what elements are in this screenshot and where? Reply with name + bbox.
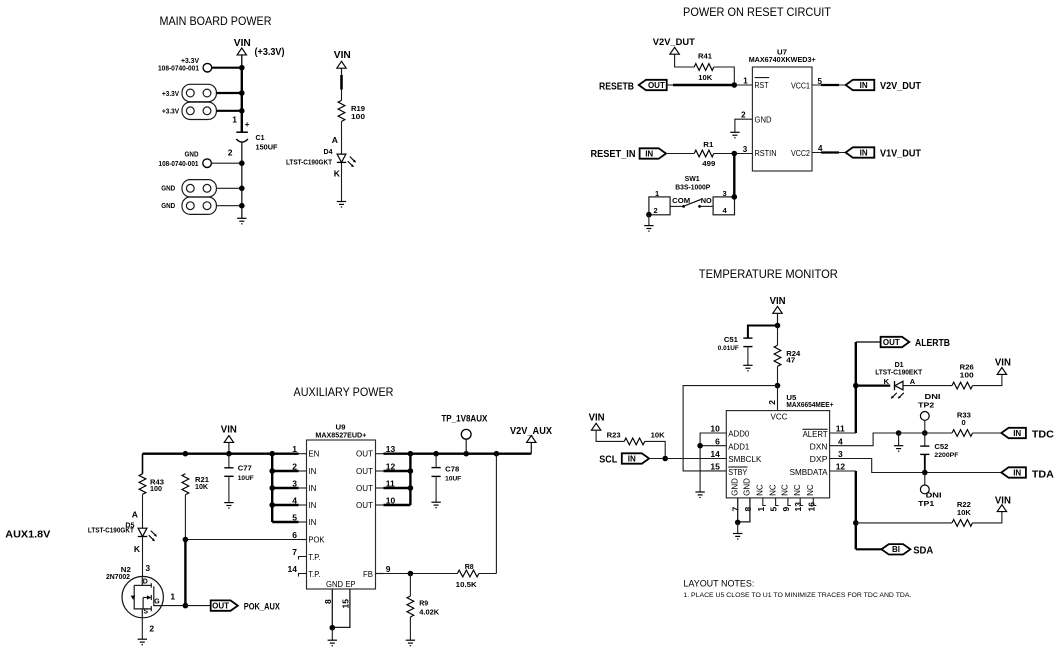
svg-text:47: 47 [786,356,795,365]
svg-text:OUT: OUT [356,467,373,476]
svg-text:5: 5 [292,512,297,522]
flag IN TDC [1001,428,1026,438]
svg-text:100: 100 [351,112,365,121]
svg-text:DXP: DXP [810,455,828,464]
svg-text:V2V_DUT: V2V_DUT [880,81,921,92]
svg-text:10K: 10K [195,484,208,491]
svg-text:10K: 10K [698,73,713,82]
wire RESETB to U7 pin 1 [667,84,673,86]
wire SMBDATA net [830,470,856,472]
wire POK to U9 pin 6 [185,539,298,541]
svg-text:9: 9 [386,564,391,574]
svg-text:3: 3 [743,145,748,154]
svg-text:C1: C1 [256,133,265,142]
wire D4 to ground [341,163,343,202]
svg-text:C51: C51 [724,335,738,344]
svg-text:R9: R9 [419,598,428,607]
wire VCC loop to STBY [683,386,777,471]
svg-text:G: G [154,599,160,606]
ground main board [237,218,246,224]
wire R23 to SCL node [645,441,666,458]
svg-text:D1: D1 [895,362,904,369]
node POK junction [183,537,189,543]
svg-text:1: 1 [292,444,297,454]
svg-text:TDA: TDA [1032,469,1054,480]
svg-text:TP_1V8AUX: TP_1V8AUX [441,413,488,424]
svg-text:GND: GND [743,478,752,496]
svg-text:OUT: OUT [883,338,900,347]
svg-text:2: 2 [767,400,777,405]
svg-text:AUXILIARY POWER: AUXILIARY POWER [294,385,394,399]
wire RESET_IN to R1 [666,153,694,155]
svg-text:8: 8 [743,507,753,512]
ground U5 [733,534,742,540]
svg-text:MAIN BOARD POWER: MAIN BOARD POWER [160,14,272,28]
svg-text:ALERTB: ALERTB [915,338,950,349]
svg-text:12: 12 [836,462,846,472]
svg-text:SMBCLK: SMBCLK [728,455,762,464]
svg-text:4: 4 [838,436,843,446]
wire TDA row [925,472,1002,474]
svg-text:0: 0 [962,418,966,427]
svg-text:NC: NC [768,484,777,496]
wire aux top rail [143,453,299,455]
svg-text:IN: IN [628,454,636,463]
svg-text:IN: IN [1013,468,1021,477]
svg-text:LTST-C190GKT: LTST-C190GKT [88,528,135,535]
flag IN V1V_DUT [846,147,875,157]
svg-text:13: 13 [793,502,803,512]
svg-text:IN: IN [645,149,653,158]
wire R21 to POK node [184,495,186,540]
svg-text:GND: GND [161,203,175,210]
svg-text:ADD1: ADD1 [728,442,750,451]
svg-text:EN: EN [308,450,319,459]
node SW1 pin 2 ground [646,212,652,218]
svg-text:3: 3 [145,563,150,573]
svg-text:SMBDATA: SMBDATA [790,468,829,477]
svg-text:D4: D4 [324,149,333,156]
svg-text:NC: NC [756,484,765,496]
svg-text:15: 15 [340,599,350,609]
wire R43 to D5 [142,494,144,528]
wire gnd connector1 to bus [216,187,241,189]
svg-text:DXN: DXN [810,443,828,452]
svg-text:2: 2 [741,111,746,120]
wire R8 to output [479,573,497,575]
wire R41 to node 1 [714,67,735,85]
wire POK node down to gate [184,540,186,606]
svg-text:2N7002: 2N7002 [106,574,130,581]
svg-text:TP2: TP2 [918,401,934,410]
svg-text:+3.3V: +3.3V [162,91,179,98]
svg-text:10UF: 10UF [445,475,461,482]
svg-text:100: 100 [150,486,162,493]
svg-text:NC: NC [781,484,790,496]
ground N2 [138,639,147,645]
ground SW1 [644,226,653,232]
svg-text:S: S [143,609,148,616]
svg-text:GND: GND [755,116,772,125]
svg-text:2: 2 [149,623,154,633]
node R22 branch [853,520,859,526]
testpoint TP1 DNI [924,473,926,486]
wire node3 down to switch [733,154,735,197]
svg-text:ALERT: ALERT [803,430,828,439]
node VIN C51 R24 [775,323,781,329]
svg-text:R1: R1 [703,140,713,149]
svg-text:SCL: SCL [599,455,617,466]
svg-text:EP: EP [346,580,356,589]
svg-text:2: 2 [654,206,658,215]
wire U5 GND pins [737,498,739,523]
svg-text:RSTIN: RSTIN [755,149,777,158]
svg-text:A: A [332,135,338,145]
svg-text:OUT: OUT [356,484,373,493]
ground U7 pin2 [730,132,739,138]
svg-text:3: 3 [838,449,843,459]
svg-text:R21: R21 [195,477,209,484]
svg-text:RESET_IN: RESET_IN [591,149,636,160]
node D1 branch [853,383,859,389]
svg-text:1: 1 [756,507,766,512]
flag OUT RESETB [639,80,667,90]
capacitor C78 10UF [435,454,437,468]
svg-text:VIN: VIN [995,357,1011,368]
svg-text:DNI: DNI [925,392,941,401]
svg-text:RST: RST [755,81,769,90]
svg-text:COM: COM [672,196,690,205]
svg-text:IN: IN [308,501,316,510]
svg-text:LTST-C190GKT: LTST-C190GKT [286,160,333,167]
svg-text:14: 14 [288,564,298,574]
svg-text:10K: 10K [651,431,666,440]
wire U9 input bus [271,454,273,522]
wire connector2 to bus [216,110,241,112]
svg-text:1: 1 [170,592,175,602]
svg-text:11: 11 [836,424,845,434]
svg-text:LTST-C190EKT: LTST-C190EKT [875,369,923,376]
ground C51 [743,365,752,371]
svg-text:6: 6 [715,436,720,446]
svg-text:A: A [910,377,916,386]
ground C78 [431,502,440,508]
svg-text:SDA: SDA [913,546,933,557]
svg-text:OUT: OUT [212,602,229,611]
svg-text:TEMPERATURE MONITOR: TEMPERATURE MONITOR [699,267,838,281]
svg-text:2: 2 [228,148,233,158]
svg-text:OUT: OUT [356,450,373,459]
svg-text:C78: C78 [445,465,459,474]
ground TDC [894,446,903,452]
wire FB net [376,573,384,575]
svg-text:(+3.3V): (+3.3V) [255,46,285,58]
svg-text:16: 16 [806,502,816,512]
svg-text:VIN: VIN [589,413,605,424]
svg-text:1: 1 [232,115,237,125]
ground ADD pins [695,492,704,498]
wire aux output rail [410,453,531,455]
wire GND vertical bus [241,143,243,219]
svg-text:RESETB: RESETB [599,82,634,93]
svg-text:N2: N2 [121,567,131,574]
U9 unconnected pins 7 14 [299,557,307,577]
svg-text:4.02K: 4.02K [419,608,440,617]
svg-text:GND: GND [161,186,175,193]
switch lever and contacts [670,205,684,207]
svg-text:MAX6654MEE+: MAX6654MEE+ [786,400,834,409]
ground D4 [337,202,346,208]
svg-text:100: 100 [960,371,974,380]
svg-text:VCC: VCC [771,412,788,421]
svg-text:C52: C52 [934,442,948,451]
svg-text:10UF: 10UF [238,475,254,482]
svg-text:T.P.: T.P. [308,570,320,579]
capacitor C52 2200PF [924,433,926,446]
svg-text:NC: NC [806,484,815,496]
svg-text:499: 499 [702,159,715,168]
svg-text:10K: 10K [957,508,972,517]
U9 pin stubs left [299,454,307,540]
svg-text:0.01UF: 0.01UF [718,345,739,352]
svg-text:1: 1 [743,76,748,85]
resistor R19 100 [338,100,345,121]
svg-text:+: + [245,120,250,129]
wire R22 row [856,522,952,524]
resistor R24 47 [777,326,779,346]
svg-text:GND: GND [185,152,199,159]
U5 NC pin stubs [763,498,817,506]
ground R9 [406,640,415,646]
svg-text:15: 15 [710,462,720,472]
svg-text:GND: GND [326,580,343,589]
svg-text:VIN: VIN [234,38,251,49]
wire terminal to bus [212,67,242,69]
wire +3.3V vertical bus [241,68,243,132]
svg-text:DNI: DNI [926,490,942,499]
svg-text:NC: NC [793,484,802,496]
svg-text:IN: IN [860,81,868,90]
svg-text:2: 2 [292,461,297,471]
resistor R43 100 [139,474,146,495]
flag IN TDA [1001,467,1026,477]
wire gnd connector2 to bus [216,205,241,207]
svg-text:T.P.: T.P. [308,553,320,562]
wire gnd terminal to bus [211,162,241,164]
svg-text:IN: IN [1013,429,1021,438]
svg-text:C77: C77 [238,464,252,473]
wire VCC stub [777,386,779,411]
node R24 VCC loop [775,383,781,389]
svg-text:D: D [143,578,148,585]
wire DXP to TDA row [830,459,925,473]
wire R1 to U7 pin 3 [714,153,735,155]
svg-text:TP1: TP1 [918,499,934,508]
svg-text:TDC: TDC [1032,430,1054,441]
svg-text:AUX1.8V: AUX1.8V [5,530,50,541]
svg-text:GND: GND [730,478,739,496]
svg-text:A: A [132,510,138,520]
resistor R21 10K [182,474,189,495]
flag OUT ALERTB [881,337,910,347]
svg-text:10.5K: 10.5K [456,580,478,589]
ground U9 [328,640,337,646]
svg-text:OUT: OUT [356,501,373,510]
svg-text:POK: POK [308,536,325,545]
svg-text:POK_AUX: POK_AUX [244,602,281,613]
svg-text:8: 8 [323,599,333,604]
svg-text:4: 4 [292,495,297,505]
svg-text:VIN: VIN [221,425,237,436]
flag BI SDA [882,544,911,554]
svg-text:+3.3V: +3.3V [162,109,179,116]
wire D1 to R26 [903,385,952,387]
svg-text:+3.3V: +3.3V [181,58,199,65]
svg-text:V2V_DUT: V2V_DUT [653,37,695,48]
svg-text:1. PLACE U5 CLOSE TO U1 TO MIN: 1. PLACE U5 CLOSE TO U1 TO MINIMIZE TRAC… [683,592,911,599]
svg-text:B3S-1000P: B3S-1000P [675,182,710,191]
svg-text:VCC2: VCC2 [791,149,810,158]
wire thick segment below VIN [340,75,343,90]
svg-text:108-0740-001: 108-0740-001 [158,66,199,73]
wire ALERT net [830,432,856,434]
svg-text:9: 9 [781,507,791,512]
svg-text:VIN: VIN [334,50,351,61]
wire D5 to N2 drain [142,537,144,577]
svg-text:108-0740-001: 108-0740-001 [159,161,199,168]
svg-text:STBY: STBY [728,468,748,477]
svg-text:IN: IN [860,148,868,157]
resistor R9 4.02K [409,574,411,597]
svg-text:10: 10 [710,424,720,434]
svg-text:OUT: OUT [648,81,665,90]
wire R19 to D4 [341,121,343,154]
svg-text:POWER ON RESET CIRCUIT: POWER ON RESET CIRCUIT [683,5,831,19]
svg-text:ADD0: ADD0 [728,430,750,439]
flag IN SCL [622,453,649,463]
wire N2 source to ground [141,618,143,640]
svg-text:14: 14 [710,449,720,459]
svg-text:V1V_DUT: V1V_DUT [880,148,921,159]
svg-text:5: 5 [769,507,779,512]
svg-text:MAX8527EUD+: MAX8527EUD+ [315,430,367,439]
node SW1 pin 3 [732,194,738,200]
svg-text:IN: IN [308,467,316,476]
svg-text:FB: FB [363,570,373,579]
svg-text:IN: IN [308,484,316,493]
svg-text:VCC1: VCC1 [791,82,810,91]
wire SDA row [856,548,882,550]
wire R33 to TDC flag [973,432,1002,434]
svg-text:R41: R41 [698,52,712,61]
svg-text:LAYOUT NOTES:: LAYOUT NOTES: [683,578,754,588]
flag OUT POK_AUX [211,600,238,610]
svg-text:7: 7 [292,547,297,557]
svg-text:2200PF: 2200PF [934,452,958,459]
wire ADD1 [700,445,726,447]
svg-text:3: 3 [292,478,297,488]
svg-text:7: 7 [731,507,741,512]
svg-text:VIN: VIN [770,296,786,307]
svg-text:NO: NO [701,196,712,205]
svg-text:IN: IN [308,518,316,527]
node VIN junction [239,65,245,71]
wire N2 gate to POK_AUX [162,605,186,607]
wire connector1 to bus [216,92,241,94]
wire U9 output bus [409,454,411,505]
capacitor C51 0.01UF [748,326,778,339]
svg-text:K: K [334,169,341,179]
svg-text:R23: R23 [607,431,621,440]
flag IN RESET_IN [640,148,666,158]
svg-text:6: 6 [292,530,297,540]
svg-text:150UF: 150UF [256,143,278,152]
wire SCL to SMBCLK [649,458,665,460]
node TDC ground branch [896,430,902,436]
svg-text:BI: BI [892,545,900,554]
wire R22 to VIN [973,512,1002,523]
wire R26 to VIN [973,374,1002,385]
svg-text:VIN: VIN [995,495,1011,506]
wire TDC row [899,432,952,434]
flag IN V2V_DUT [846,80,875,90]
wire DXN to TDC row [830,433,899,446]
capacitor C77 10UF [228,454,230,468]
svg-text:K: K [134,544,141,554]
ground C77 [224,503,233,509]
U9 pin stubs right [376,454,384,574]
svg-text:MAX6740XKWED3+: MAX6740XKWED3+ [749,55,817,64]
wire ADD0 to ground [700,433,726,492]
